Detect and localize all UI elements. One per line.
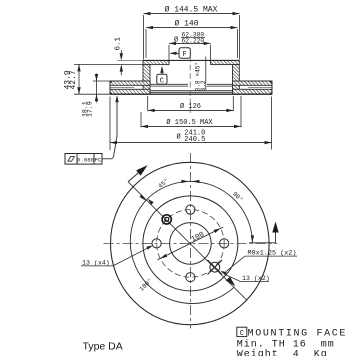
svg-text:17.9: 17.9 xyxy=(87,101,94,117)
svg-text:13 (x4): 13 (x4) xyxy=(82,259,110,266)
svg-text:6.1: 6.1 xyxy=(114,36,122,50)
svg-text:3.2: 3.2 xyxy=(200,80,207,91)
svg-text:0.080: 0.080 xyxy=(77,157,95,164)
svg-text:F: F xyxy=(182,51,186,59)
svg-text:Weight 4 Kg: Weight 4 Kg xyxy=(237,348,328,356)
svg-text:240.5: 240.5 xyxy=(184,136,205,144)
svg-text:Ø 126: Ø 126 xyxy=(180,102,201,111)
svg-text:C: C xyxy=(240,330,244,338)
svg-text:C: C xyxy=(160,77,164,85)
svg-text:Type DA: Type DA xyxy=(83,340,123,352)
svg-text:Ø: Ø xyxy=(177,133,181,142)
svg-text:Ø 140: Ø 140 xyxy=(174,19,198,28)
svg-text:FC: FC xyxy=(95,157,102,164)
svg-text:MOUNTING FACE: MOUNTING FACE xyxy=(248,328,347,339)
svg-text:Ø 144.5 MAX: Ø 144.5 MAX xyxy=(165,5,218,14)
svg-text:42.7: 42.7 xyxy=(69,70,78,89)
svg-text:Ø 150.5 MAX: Ø 150.5 MAX xyxy=(166,118,213,127)
